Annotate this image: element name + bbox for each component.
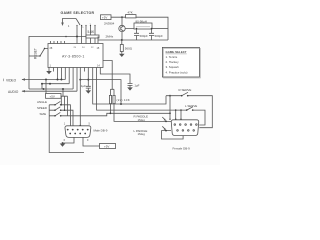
wire L2 (42, 68, 69, 90)
connector J2 female DB-9 (171, 120, 198, 136)
wire VIDEO line L1 (22, 79, 65, 81)
svg-text:2MHz: 2MHz (106, 35, 114, 39)
wire r paddle (114, 104, 171, 122)
switch S2 reset wire (29, 55, 40, 57)
svg-text:+5V: +5V (50, 95, 55, 99)
svg-text:.1μF: .1μF (80, 84, 86, 88)
ground osc (119, 54, 125, 57)
svg-text:4. Practice (solo): 4. Practice (solo) (166, 70, 188, 74)
svg-text:500pF: 500pF (155, 34, 164, 38)
node emitter junction (121, 39, 123, 41)
resistor R1 5.6K (86, 35, 99, 38)
svg-text:SPEED: SPEED (37, 106, 47, 110)
resistor R4 1K (109, 95, 111, 103)
svg-text:Male DB-9: Male DB-9 (94, 129, 108, 133)
svg-text:+5V: +5V (102, 16, 107, 20)
wire L3 (29, 68, 73, 90)
svg-text:5.6K: 5.6K (88, 30, 96, 34)
switch L serve (187, 107, 205, 125)
wire right bus top (80, 80, 121, 104)
switch S1 arrow (61, 23, 64, 27)
wire video to box (45, 80, 47, 94)
svg-text:2. Hockey: 2. Hockey (166, 60, 180, 64)
switch S1 lever (76, 19, 80, 26)
wire IC right pin (103, 61, 114, 96)
pin wires to video (58, 68, 66, 80)
svg-text:1. Tennis: 1. Tennis (166, 55, 178, 59)
wire serve drop V170 (169, 96, 171, 120)
svg-text:R SERVE: R SERVE (179, 88, 192, 92)
svg-text:560Ω: 560Ω (125, 47, 133, 51)
svg-text:1Meg: 1Meg (138, 118, 146, 122)
wire top-left rail (29, 37, 98, 90)
capacitor C4 (100, 72, 132, 88)
connector J1 male DB-9 (65, 126, 91, 138)
pin stub 2 (52, 68, 54, 72)
svg-text:AUDIO: AUDIO (8, 90, 19, 94)
svg-text:80-98μH: 80-98μH (136, 20, 147, 24)
label +5V box oscillator (101, 15, 112, 20)
wire left contacts chain (49, 105, 84, 153)
IC bottom pin gnd (48, 68, 50, 72)
resistor R3 560ohm (120, 45, 123, 52)
label +5V box switches (46, 94, 62, 99)
node junction selector rail (76, 36, 78, 38)
label +5V box bottom (100, 144, 116, 149)
pot arrow R (162, 117, 165, 120)
capacitor C2 500pF (149, 29, 154, 41)
svg-text:47K: 47K (128, 11, 133, 15)
ground db9m (63, 137, 75, 143)
wire selector line 5 (94, 26, 96, 44)
svg-text:VIDEO: VIDEO (6, 79, 17, 83)
wire osc bottom rail (98, 37, 168, 44)
wire R serve feed H1 (93, 68, 166, 105)
wire db9m main feed (79, 68, 81, 126)
wire h3 (110, 104, 170, 114)
switch S2 reset lever (40, 49, 48, 57)
inductor L1 80-98uH (134, 23, 152, 29)
svg-text:3. Squash: 3. Squash (166, 65, 180, 69)
transistor Q1 2N3904 (119, 25, 125, 31)
ground C3 (86, 90, 92, 93)
switch R serve (166, 92, 212, 127)
svg-text:1Meg: 1Meg (138, 132, 146, 136)
pin stub 100 (99, 68, 101, 72)
wire selector throw 4 (90, 26, 92, 44)
capacitor C3 .1uF (86, 68, 91, 91)
db9f contact dots (169, 119, 170, 120)
wire L serve feed H2 (97, 68, 187, 111)
wire db9m +5V (83, 137, 100, 146)
wire +5V switch feed (61, 96, 68, 116)
GAME SELECT list box (162, 47, 199, 77)
svg-text:Female DB-9: Female DB-9 (173, 147, 191, 151)
IC U1 AY-3-8500-1 body (48, 44, 103, 68)
wire selector throw 2 (81, 26, 83, 44)
pot arrow L (162, 126, 165, 129)
node collector junction (121, 16, 123, 18)
svg-text:.1μF: .1μF (134, 84, 140, 88)
wire selector throw 1 (76, 26, 78, 44)
svg-text:+5V: +5V (104, 145, 109, 149)
svg-text:2N3904: 2N3904 (104, 22, 115, 26)
ground pin1 (46, 71, 52, 74)
resistor R2 47K (126, 15, 137, 18)
wire selector throw 3 (85, 26, 87, 44)
selector contact dots (76, 25, 77, 26)
pin stubs top (51, 41, 65, 44)
svg-text:(2x) 10K: (2x) 10K (117, 98, 131, 102)
capacitor C1 500pF (134, 29, 139, 41)
svg-text:GAME SELECTOR: GAME SELECTOR (61, 11, 95, 15)
wire db9f top entries (176, 110, 181, 119)
wire +5V rail top (111, 17, 168, 40)
svg-text:SIZE: SIZE (40, 112, 47, 116)
svg-text:GAME SELECT: GAME SELECT (166, 50, 187, 54)
wire L paddle loop (162, 131, 184, 139)
svg-text:ANGLE: ANGLE (37, 100, 47, 104)
svg-text:500pF: 500pF (140, 34, 149, 38)
pin stub 84 (83, 68, 85, 72)
switch S1 game selector common wire (63, 19, 77, 23)
svg-text:L SERVE: L SERVE (185, 104, 197, 108)
svg-text:RESET: RESET (34, 48, 38, 59)
ground C4 (127, 87, 133, 90)
svg-text:AY-3-8500-1: AY-3-8500-1 (62, 55, 85, 59)
wire box to L3 (62, 89, 64, 96)
wire AUDIO line L4 (22, 68, 77, 92)
resistor R5 1K (113, 95, 115, 103)
